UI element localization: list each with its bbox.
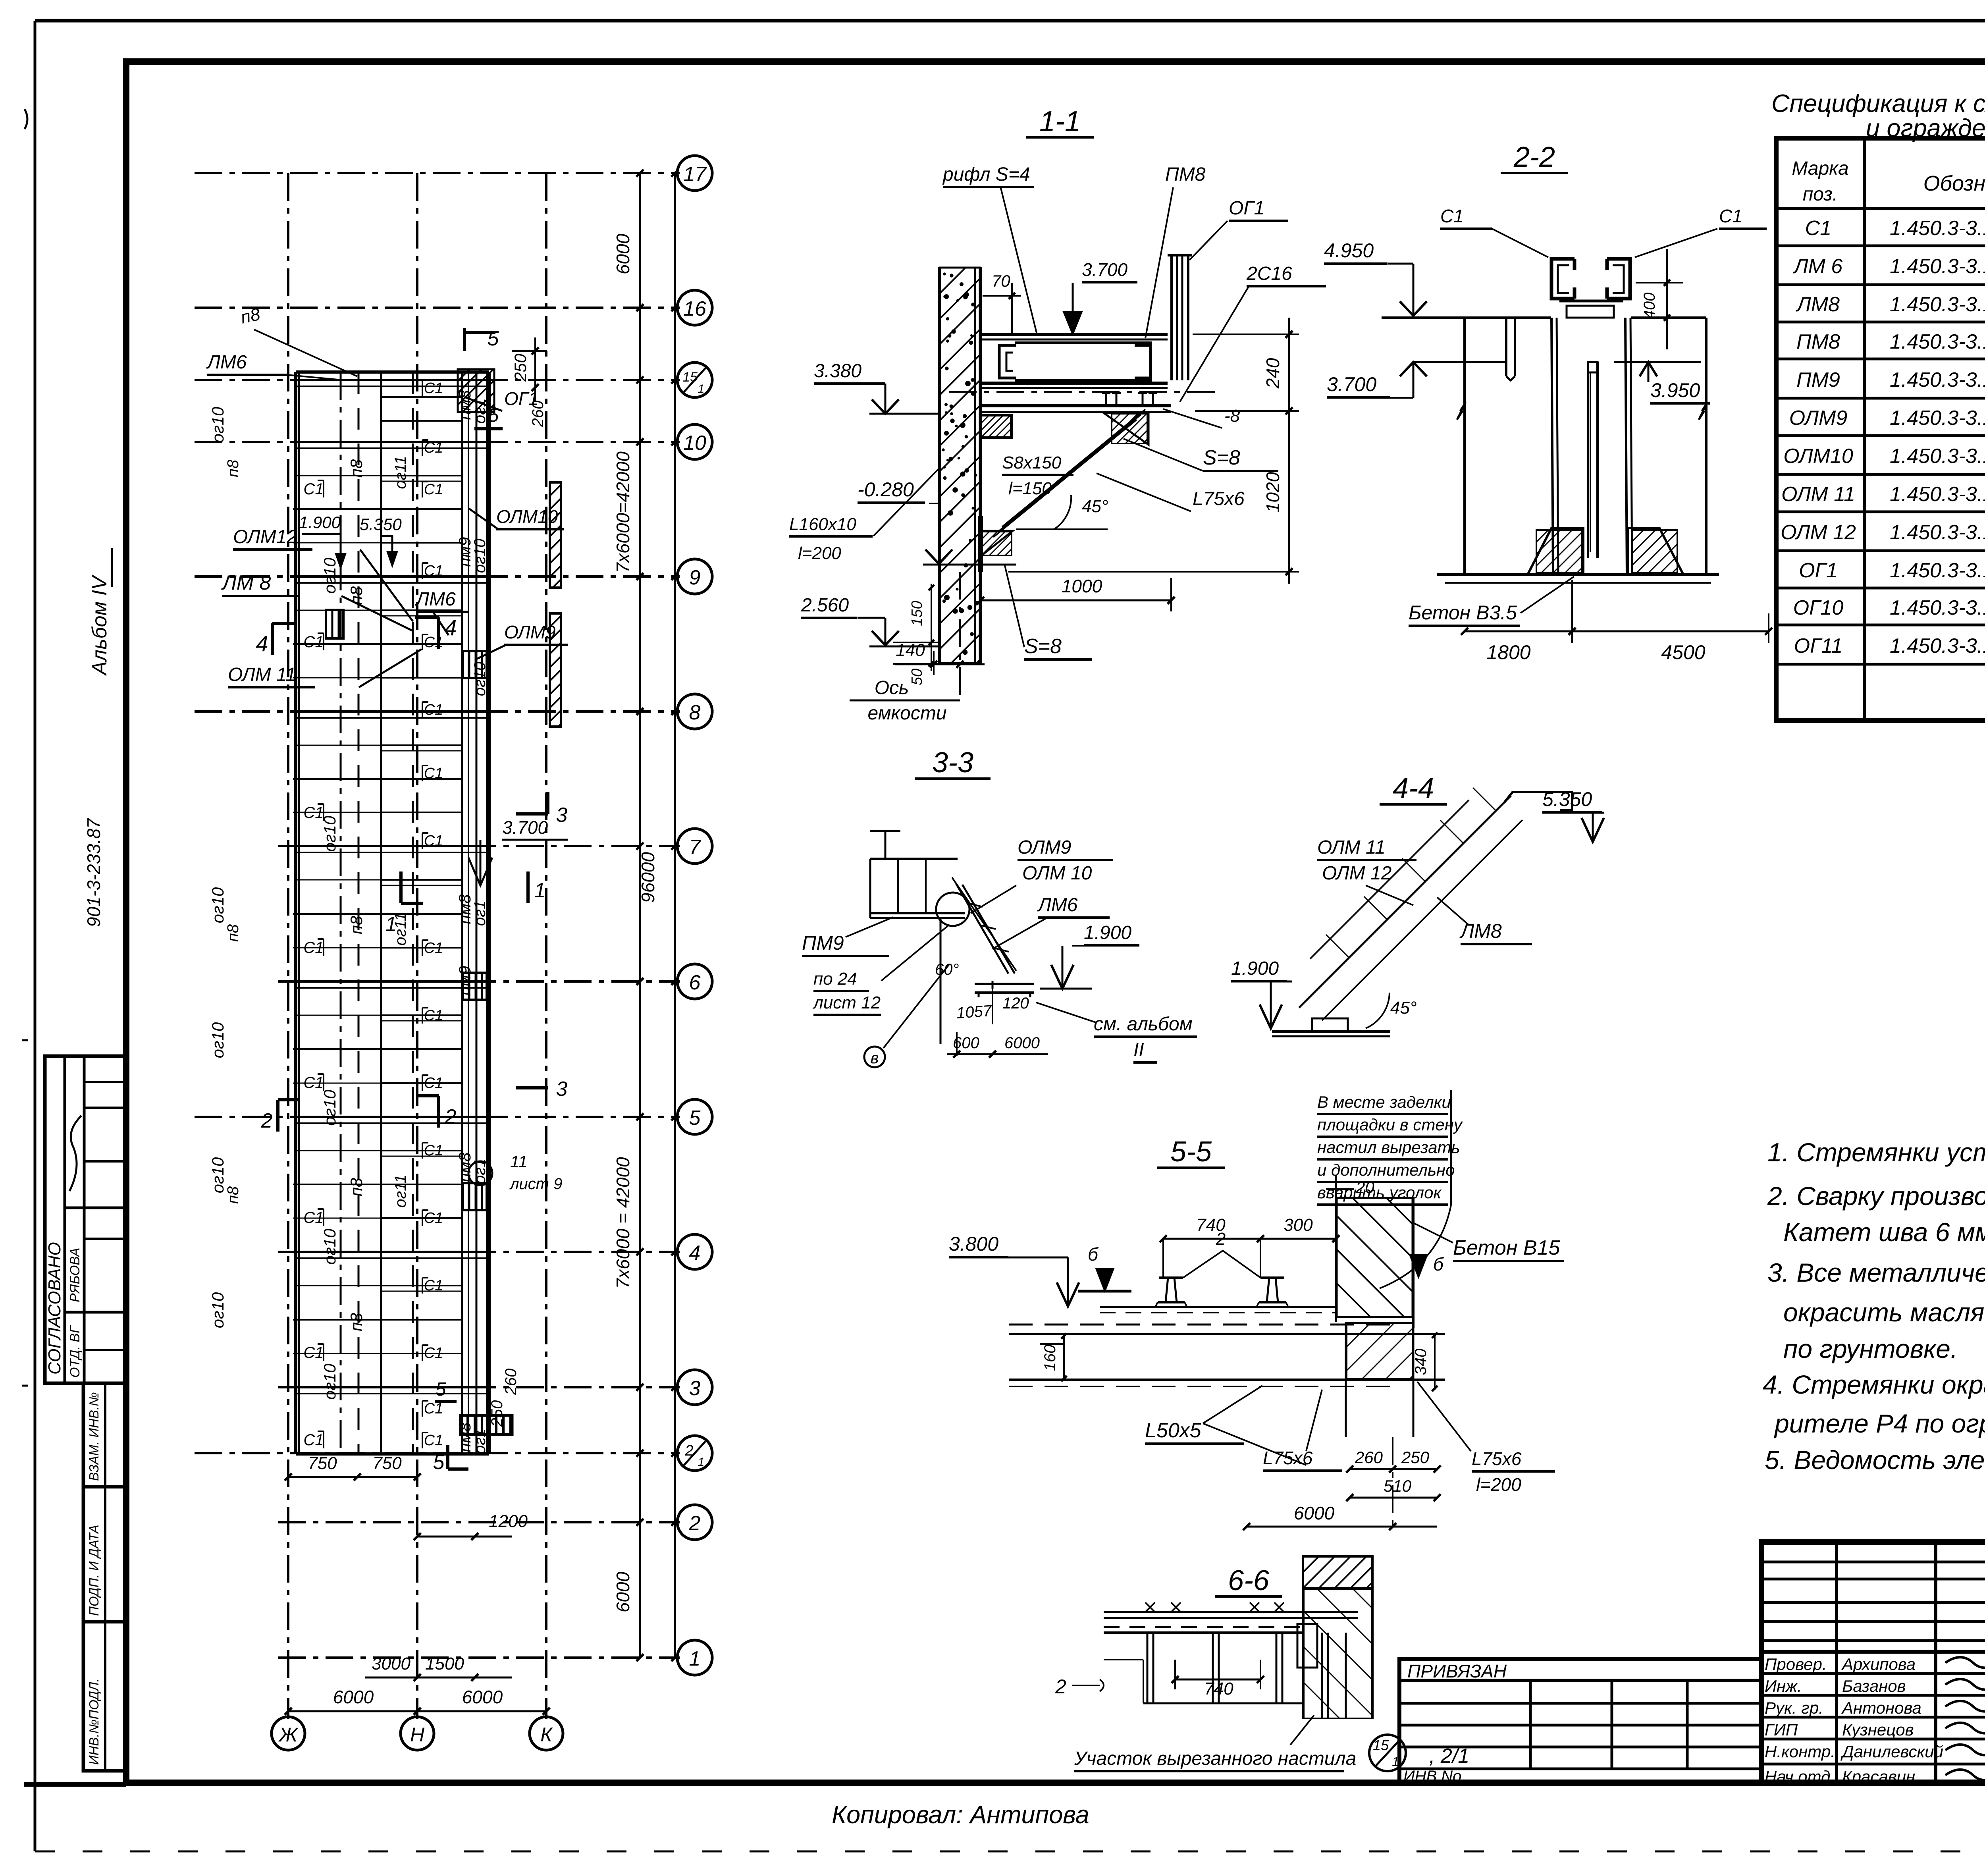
svg-text:Рук. гр.: Рук. гр.	[1765, 1699, 1823, 1717]
svg-text:Бетон В15: Бетон В15	[1453, 1236, 1561, 1259]
svg-text:5: 5	[689, 1107, 701, 1130]
svg-text:50: 50	[383, 515, 402, 534]
svg-text:4.950: 4.950	[1324, 239, 1374, 262]
svg-text:по грунтовке.: по грунтовке.	[1783, 1334, 1958, 1363]
svg-text:б: б	[1088, 1244, 1099, 1265]
svg-text:4: 4	[689, 1242, 701, 1265]
svg-text:160: 160	[1041, 1345, 1059, 1371]
svg-text:Спецификация к схеме расположе: Спецификация к схеме расположения перехо…	[1771, 90, 1985, 118]
svg-text:96000: 96000	[638, 852, 658, 903]
svg-text:С1: С1	[424, 702, 443, 718]
svg-text:1: 1	[698, 382, 705, 395]
svg-text:в: в	[871, 1049, 879, 1067]
svg-text:С1: С1	[303, 633, 324, 651]
svg-text:С1: С1	[1440, 206, 1464, 226]
svg-text:ОЛМ9: ОЛМ9	[1789, 407, 1848, 430]
svg-text:ОЛМ10: ОЛМ10	[1783, 445, 1853, 468]
svg-text:250: 250	[488, 1400, 506, 1427]
svg-text:3.800: 3.800	[949, 1233, 998, 1255]
svg-text:400: 400	[1641, 293, 1658, 319]
svg-text:ог10: ог10	[320, 1363, 339, 1400]
svg-text:С1: С1	[1805, 217, 1831, 240]
svg-text:60°: 60°	[935, 961, 959, 978]
svg-text:6-6: 6-6	[1228, 1565, 1270, 1596]
svg-text:1.450.3-3.1 4.1.1.1.0-04: 1.450.3-3.1 4.1.1.1.0-04	[1890, 483, 1985, 506]
svg-text:-0.280: -0.280	[858, 478, 914, 501]
svg-text:см. альбом: см. альбом	[1094, 1014, 1193, 1035]
svg-text:II: II	[1133, 1039, 1144, 1060]
svg-text:1.450.3-3.1 5.1.01.0-13: 1.450.3-3.1 5.1.01.0-13	[1890, 559, 1985, 582]
svg-text:1: 1	[385, 913, 397, 936]
svg-text:3.380: 3.380	[814, 361, 861, 382]
svg-text:ОГ1: ОГ1	[1799, 559, 1838, 582]
svg-text:С1: С1	[424, 440, 443, 456]
svg-text:2: 2	[1055, 1675, 1066, 1698]
svg-text:3000: 3000	[372, 1654, 410, 1674]
svg-text:ог10: ог10	[208, 407, 227, 443]
svg-text:С1: С1	[424, 765, 443, 782]
svg-text:ог10: ог10	[208, 887, 227, 923]
svg-text:L160x10: L160x10	[789, 515, 856, 534]
svg-text:1.450.3-3.1 1,3.1.0.1-07: 1.450.3-3.1 1,3.1.0.1-07	[1890, 217, 1985, 240]
svg-text:20: 20	[1355, 1178, 1374, 1197]
svg-text:1.450.3-3.1 1.2.1.00-05: 1.450.3-3.1 1.2.1.00-05	[1890, 255, 1985, 278]
svg-text:2: 2	[261, 1109, 273, 1132]
svg-text:рифл S=4: рифл S=4	[942, 164, 1030, 185]
svg-text:ог10: ог10	[320, 1089, 339, 1126]
svg-text:С1: С1	[424, 1345, 443, 1361]
svg-text:п8: п8	[347, 1313, 366, 1331]
svg-text:К: К	[540, 1724, 553, 1746]
svg-text:ПМ8: ПМ8	[1796, 330, 1840, 353]
svg-text:6000: 6000	[1004, 1034, 1040, 1052]
svg-text:Базанов: Базанов	[1842, 1677, 1906, 1695]
svg-text:L50x5: L50x5	[1145, 1419, 1202, 1442]
svg-text:ОГ1: ОГ1	[1229, 198, 1264, 219]
svg-text:пм9: пм9	[455, 966, 474, 995]
svg-text:ЛМ6: ЛМ6	[415, 589, 456, 610]
svg-text:Н.контр.: Н.контр.	[1765, 1742, 1835, 1761]
svg-text:ОЛМ12: ОЛМ12	[233, 526, 297, 548]
svg-text:1057: 1057	[956, 1002, 993, 1022]
svg-text:п8: п8	[224, 1186, 242, 1204]
svg-text:4: 4	[256, 631, 268, 656]
svg-text:ОЛМ 11: ОЛМ 11	[1781, 483, 1855, 506]
svg-text:1800: 1800	[1486, 641, 1530, 663]
svg-text:5: 5	[433, 1451, 445, 1474]
svg-text:С1: С1	[424, 1142, 443, 1159]
svg-text:ог11: ог11	[392, 456, 409, 489]
svg-text:1020: 1020	[1262, 472, 1283, 513]
svg-text:С1: С1	[424, 1075, 443, 1091]
svg-text:1.450.3-3.1 4.1.2.1.0-10: 1.450.3-3.1 4.1.2.1.0-10	[1890, 445, 1985, 468]
svg-text:17: 17	[683, 163, 707, 186]
svg-text:1.900: 1.900	[299, 513, 341, 532]
svg-text:ИНВ.№ПОДЛ.: ИНВ.№ПОДЛ.	[87, 1678, 101, 1765]
svg-text:1: 1	[534, 879, 546, 902]
svg-text:240: 240	[1262, 358, 1283, 389]
svg-text:ОЛМ 10: ОЛМ 10	[1022, 863, 1092, 884]
svg-text:ЛМ 8: ЛМ 8	[221, 571, 271, 594]
svg-text:С1: С1	[303, 804, 324, 821]
svg-text:l=200: l=200	[1476, 1474, 1521, 1495]
svg-text:1.450.3-3.1 2.1.1.0.0-32: 1.450.3-3.1 2.1.1.0.0-32	[1890, 368, 1985, 391]
svg-text:300: 300	[1284, 1215, 1313, 1235]
svg-text:ПМ8: ПМ8	[1165, 164, 1206, 185]
svg-text:5.3: 5.3	[360, 515, 383, 534]
svg-text:ог11: ог11	[392, 1174, 409, 1208]
svg-text:150: 150	[909, 601, 925, 626]
svg-text:S8x150: S8x150	[1002, 453, 1062, 472]
svg-text:6: 6	[689, 971, 701, 994]
svg-text:ОГ11: ОГ11	[1794, 634, 1843, 657]
svg-text:Красавин: Красавин	[1842, 1767, 1915, 1786]
svg-text:настил вырезать: настил вырезать	[1317, 1138, 1460, 1157]
svg-text:ИНВ.No: ИНВ.No	[1403, 1768, 1461, 1785]
svg-text:окрасить масляной краской Г: окрасить масляной краской ГОСТ 8292-85 з…	[1783, 1298, 1985, 1327]
svg-text:ОГ10: ОГ10	[1793, 596, 1844, 619]
svg-text:2-2: 2-2	[1513, 141, 1555, 173]
svg-text:1: 1	[689, 1647, 701, 1670]
svg-text:2. Сварку производить электр: 2. Сварку производить электродами Э42 ГО…	[1767, 1181, 1985, 1211]
svg-text:1-1: 1-1	[1039, 106, 1081, 137]
svg-text:Н: Н	[410, 1724, 425, 1746]
svg-text:рителе Р4 по огрунтовке ХС-: рителе Р4 по огрунтовке ХС-010 за 2 раза…	[1774, 1409, 1985, 1438]
svg-text:750: 750	[372, 1454, 402, 1473]
svg-text:б: б	[1433, 1254, 1444, 1274]
svg-text:Провер.: Провер.	[1765, 1655, 1827, 1674]
svg-text:1.450.3-3.1 2.1.1.0.0-38: 1.450.3-3.1 2.1.1.0.0-38	[1890, 330, 1985, 353]
svg-text:260: 260	[529, 401, 547, 428]
svg-text:4-4: 4-4	[1393, 773, 1434, 804]
svg-text:3.700: 3.700	[502, 817, 548, 838]
svg-text:Альбом IV: Альбом IV	[88, 575, 111, 676]
svg-text:Инж.: Инж.	[1765, 1677, 1802, 1695]
svg-text:4: 4	[444, 615, 457, 640]
svg-text:площадки в стену: площадки в стену	[1317, 1115, 1463, 1134]
svg-text:Участок вырезанного настила: Участок вырезанного настила	[1074, 1748, 1356, 1769]
svg-text:ог10: ог10	[320, 1228, 339, 1265]
svg-text:1. Стремянки установить до: 1. Стремянки установить до устройство на…	[1767, 1138, 1985, 1167]
svg-text:11: 11	[510, 1152, 528, 1171]
svg-text:ЛМ6: ЛМ6	[206, 352, 247, 373]
svg-text:и дополнительно: и дополнительно	[1317, 1161, 1455, 1179]
svg-text:ОЛМ 12: ОЛМ 12	[1781, 521, 1856, 544]
svg-text:750: 750	[308, 1454, 337, 1473]
svg-text:Нач.отд.: Нач.отд.	[1765, 1767, 1835, 1786]
svg-text:3: 3	[556, 804, 568, 827]
svg-text:5-5: 5-5	[1170, 1136, 1212, 1168]
svg-text:ЛМ 6: ЛМ 6	[1793, 255, 1842, 278]
svg-text:5: 5	[488, 405, 499, 426]
svg-text:4500: 4500	[1661, 641, 1705, 663]
svg-text:2: 2	[689, 1512, 701, 1535]
svg-text:1.450.3-3.1 4.1.1.1.0-10: 1.450.3-3.1 4.1.1.1.0-10	[1890, 521, 1985, 544]
svg-text:140: 140	[896, 640, 925, 660]
svg-text:ОЛМ9: ОЛМ9	[1018, 837, 1071, 858]
svg-text:3: 3	[556, 1078, 568, 1101]
svg-text:15: 15	[1373, 1737, 1389, 1753]
svg-text:l=150: l=150	[1008, 479, 1052, 498]
svg-text:510: 510	[1384, 1477, 1412, 1495]
svg-text:емкости: емкости	[867, 703, 946, 724]
svg-text:С1: С1	[424, 833, 443, 849]
svg-text:1.900: 1.900	[1084, 922, 1131, 943]
svg-text:ПМ9: ПМ9	[1796, 368, 1840, 391]
svg-text:740: 740	[1204, 1679, 1233, 1699]
svg-text:С1: С1	[424, 634, 443, 651]
svg-text:3.700: 3.700	[1327, 373, 1376, 395]
svg-text:Бетон В3.5: Бетон В3.5	[1409, 602, 1517, 624]
svg-text:п8: п8	[224, 459, 242, 477]
svg-text:Обозначение: Обозначение	[1923, 172, 1985, 195]
svg-text:лист 9: лист 9	[509, 1175, 562, 1193]
svg-text:250: 250	[1401, 1448, 1430, 1467]
svg-text:ог10: ог10	[208, 1292, 227, 1328]
svg-text:2С16: 2С16	[1246, 263, 1292, 284]
svg-text:С1: С1	[303, 1344, 324, 1361]
svg-text:ЛМ6: ЛМ6	[1037, 895, 1078, 916]
svg-text:50: 50	[909, 669, 925, 685]
svg-text:340: 340	[1412, 1349, 1430, 1375]
svg-text:45°: 45°	[1082, 497, 1108, 516]
svg-text:ОТД. ВГ: ОТД. ВГ	[67, 1325, 83, 1378]
svg-text:1.450.3-3.1 4.1.2.1.0-01: 1.450.3-3.1 4.1.2.1.0-01	[1890, 407, 1985, 430]
svg-text:С1: С1	[303, 480, 324, 498]
svg-text:4. Стремянки окрасить лако: 4. Стремянки окрасить лаком ХС-76 за 3ра…	[1763, 1370, 1985, 1399]
svg-text:7x6000=42000: 7x6000=42000	[613, 451, 633, 573]
svg-text:6000: 6000	[613, 233, 633, 274]
svg-text:РЯБОВА: РЯБОВА	[67, 1247, 83, 1302]
svg-text:3: 3	[689, 1377, 701, 1400]
svg-text:С1: С1	[303, 1431, 324, 1449]
svg-text:ог10: ог10	[320, 557, 339, 594]
svg-text:ГИП: ГИП	[1765, 1720, 1798, 1739]
svg-text:6000: 6000	[613, 1571, 633, 1612]
svg-text:1200: 1200	[489, 1512, 528, 1531]
svg-text:ог10: ог10	[471, 662, 489, 696]
svg-text:9: 9	[689, 566, 701, 589]
svg-text:Копировал: Антипова: Копировал: Антипова	[832, 1801, 1089, 1829]
svg-text:поз.: поз.	[1803, 184, 1838, 205]
svg-text:L75x6: L75x6	[1193, 488, 1245, 509]
svg-text:l=200: l=200	[798, 544, 841, 563]
svg-text:по 24: по 24	[813, 969, 857, 989]
svg-text:ОЛМ9: ОЛМ9	[504, 622, 556, 642]
svg-text:Архипова: Архипова	[1841, 1655, 1916, 1674]
svg-text:С1: С1	[424, 1210, 443, 1226]
svg-text:250: 250	[511, 353, 530, 382]
svg-text:ВЗАМ. ИНВ.№: ВЗАМ. ИНВ.№	[87, 1392, 101, 1481]
svg-text:Катет шва 6 мм.: Катет шва 6 мм.	[1783, 1217, 1985, 1247]
svg-text:260: 260	[502, 1369, 520, 1396]
svg-text:Марка: Марка	[1792, 158, 1848, 179]
svg-text:лист 12: лист 12	[812, 993, 881, 1012]
svg-text:С1: С1	[303, 939, 324, 956]
svg-text:п8: п8	[347, 586, 366, 605]
svg-text:6000: 6000	[333, 1687, 374, 1707]
svg-text:10: 10	[683, 432, 706, 455]
svg-text:С1: С1	[424, 1007, 443, 1024]
svg-text:1.450.3-3.1 5.1.0.1.0-12: 1.450.3-3.1 5.1.0.1.0-12	[1890, 596, 1985, 619]
svg-text:S=8: S=8	[1203, 446, 1240, 469]
svg-text:260: 260	[1355, 1448, 1383, 1467]
svg-text:5.350: 5.350	[1542, 788, 1592, 810]
svg-text:С1: С1	[424, 380, 443, 397]
svg-text:СОГЛАСОВАНО: СОГЛАСОВАНО	[45, 1242, 64, 1375]
svg-text:ог10: ог10	[208, 1022, 227, 1058]
svg-text:S=8: S=8	[1024, 635, 1062, 658]
svg-text:5: 5	[436, 1379, 446, 1400]
svg-text:1000: 1000	[1062, 576, 1102, 596]
svg-text:ПМ9: ПМ9	[802, 932, 844, 954]
svg-text:п8: п8	[347, 916, 366, 934]
svg-text:ПРИВЯЗАН: ПРИВЯЗАН	[1407, 1661, 1507, 1681]
svg-text:Антонова: Антонова	[1841, 1699, 1921, 1717]
svg-text:-8: -8	[1224, 406, 1240, 426]
svg-text:С1: С1	[424, 563, 443, 579]
svg-text:5: 5	[488, 327, 499, 350]
svg-text:1.450.3-3.1 5.1.0.1.0-11: 1.450.3-3.1 5.1.0.1.0-11	[1890, 634, 1985, 657]
svg-text:15: 15	[682, 370, 698, 385]
svg-text:С1: С1	[424, 940, 443, 956]
svg-text:6000: 6000	[462, 1687, 503, 1707]
svg-text:3-3: 3-3	[932, 747, 973, 779]
svg-text:2: 2	[445, 1105, 457, 1128]
svg-text:С1: С1	[303, 1209, 324, 1226]
svg-text:1500: 1500	[425, 1654, 464, 1674]
svg-text:740: 740	[1196, 1215, 1226, 1235]
svg-text:ОЛМ 11: ОЛМ 11	[1317, 837, 1386, 858]
svg-text:3.700: 3.700	[1082, 259, 1128, 280]
svg-text:В месте заделки: В месте заделки	[1317, 1093, 1451, 1111]
svg-text:70: 70	[992, 272, 1010, 290]
svg-text:ОЛМ10: ОЛМ10	[496, 506, 558, 527]
svg-text:L75x6: L75x6	[1472, 1448, 1522, 1469]
svg-text:6000: 6000	[1294, 1503, 1335, 1523]
svg-text:п8: п8	[347, 459, 366, 478]
svg-text:5. Ведомость элементов см. л: 5. Ведомость элементов см. лист 7.	[1765, 1445, 1985, 1475]
svg-text:ПОДП. И ДАТА: ПОДП. И ДАТА	[87, 1525, 101, 1616]
svg-text:С1: С1	[1719, 206, 1742, 226]
svg-text:ОЛМ 11: ОЛМ 11	[228, 664, 296, 685]
svg-text:Ось: Ось	[875, 677, 909, 698]
svg-text:ог1: ог1	[471, 900, 489, 926]
svg-text:1.450.3-3.1 1.1.1.0.0-16: 1.450.3-3.1 1.1.1.0.0-16	[1890, 293, 1985, 316]
svg-text:2: 2	[684, 1442, 693, 1459]
svg-text:16: 16	[683, 297, 706, 320]
svg-text:120: 120	[1002, 995, 1029, 1012]
svg-text:L75x6: L75x6	[1263, 1448, 1313, 1468]
svg-text:7x6000 = 42000: 7x6000 = 42000	[613, 1157, 633, 1289]
svg-text:ог10: ог10	[471, 539, 489, 573]
svg-text:7: 7	[689, 836, 701, 859]
svg-text:600: 600	[953, 1034, 979, 1052]
svg-text:45°: 45°	[1390, 998, 1417, 1018]
svg-text:901-3-233.87: 901-3-233.87	[83, 818, 104, 927]
svg-text:2.560: 2.560	[801, 595, 849, 616]
svg-text:3. Все металлические констр: 3. Все металлические конструкции, кроме …	[1767, 1258, 1985, 1287]
svg-text:3.950: 3.950	[1650, 379, 1700, 401]
svg-text:С1: С1	[424, 1432, 443, 1449]
svg-text:С1: С1	[424, 1277, 443, 1294]
svg-text:ЛМ8: ЛМ8	[1796, 293, 1840, 316]
svg-text:ОЛМ 12: ОЛМ 12	[1322, 863, 1391, 884]
svg-text:п8: п8	[224, 924, 242, 942]
svg-text:п8: п8	[347, 1178, 366, 1196]
svg-text:8: 8	[689, 701, 701, 724]
svg-text:ог1: ог1	[471, 1429, 489, 1454]
svg-text:1: 1	[698, 1456, 705, 1469]
svg-text:С1: С1	[303, 1074, 324, 1091]
svg-text:Ж: Ж	[278, 1724, 299, 1746]
svg-text:Кузнецов: Кузнецов	[1842, 1720, 1914, 1739]
svg-text:1.900: 1.900	[1231, 958, 1279, 979]
svg-text:С1: С1	[424, 481, 443, 498]
svg-text:Данилевский: Данилевский	[1840, 1742, 1943, 1761]
